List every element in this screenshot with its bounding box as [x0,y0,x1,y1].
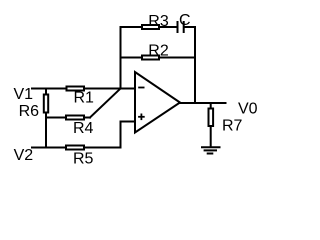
resistor R1 [67,87,95,107]
svg-text:V0: V0 [238,101,258,118]
resistor R2 [142,43,169,60]
resistor R3 [142,13,169,30]
resistor R6 [19,95,49,121]
svg-text:R6: R6 [19,103,40,120]
wire top feedback branch left vertical and horizontal to R3 [121,27,177,89]
wire R2 feedback row [121,57,196,59]
wire output node V0 [179,102,226,104]
svg-text:V2: V2 [14,147,34,164]
svg-text:R4: R4 [73,120,94,137]
wire V2 row through R5 up to non-inverting input [32,122,135,148]
wire R7 drop to ground [210,103,212,147]
wire from capacitor C right plate to right vertical down to output [185,27,195,103]
svg-text:C: C [179,12,191,29]
resistor R4 [66,116,94,138]
wire R6 vertical drop from V1 row to V2 row [45,89,47,148]
ground [201,147,221,153]
op-amp U1 [135,72,180,133]
wire V1 row through R1 to inverting input [32,88,135,90]
wire diagonal from R4 to inverting input node [90,89,121,118]
wire R4 row [46,117,90,119]
svg-text:R7: R7 [222,118,243,135]
svg-text:R1: R1 [74,90,95,107]
svg-text:R2: R2 [148,43,169,60]
svg-text:R5: R5 [73,151,94,168]
svg-text:R3: R3 [148,13,169,30]
capacitor C [178,12,191,33]
resistor R7 [209,109,243,135]
resistor R5 [66,146,94,168]
svg-text:V1: V1 [14,86,34,103]
